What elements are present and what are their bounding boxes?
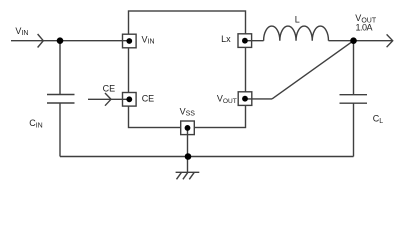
svg-text:CE: CE	[103, 84, 116, 94]
svg-text:CE: CE	[142, 94, 155, 104]
svg-text:Lx: Lx	[221, 34, 231, 44]
svg-text:1.0A: 1.0A	[356, 23, 373, 33]
svg-text:L: L	[295, 15, 300, 25]
